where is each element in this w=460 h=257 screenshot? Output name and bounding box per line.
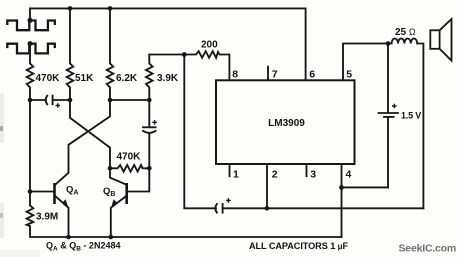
svg-text:ALL CAPACITORS 1 μF: ALL CAPACITORS 1 μF	[249, 241, 348, 251]
svg-text:3.9K: 3.9K	[157, 73, 179, 84]
svg-text:51K: 51K	[75, 73, 94, 84]
svg-text:470K: 470K	[36, 73, 61, 84]
svg-text:2: 2	[272, 169, 278, 181]
svg-text:QA: QA	[66, 185, 78, 197]
svg-text:4: 4	[346, 169, 352, 181]
svg-text:200: 200	[201, 40, 218, 51]
svg-text:6.2K: 6.2K	[116, 73, 138, 84]
svg-text:SeekIC.com: SeekIC.com	[399, 243, 457, 255]
svg-text:QA & QB - 2N2484: QA & QB - 2N2484	[46, 240, 120, 252]
svg-text:7: 7	[272, 68, 278, 80]
svg-text:5: 5	[346, 68, 352, 80]
svg-text:470K: 470K	[117, 152, 142, 163]
svg-text:6: 6	[309, 68, 315, 80]
svg-text:1: 1	[233, 169, 239, 181]
svg-text:3: 3	[310, 169, 316, 181]
svg-text:8: 8	[232, 68, 238, 80]
svg-text:LM3909: LM3909	[268, 118, 305, 129]
svg-text:3.9M: 3.9M	[36, 212, 58, 223]
svg-text:QB: QB	[103, 186, 115, 198]
svg-text:1.5 V: 1.5 V	[401, 111, 421, 121]
svg-text:25 Ω: 25 Ω	[395, 27, 416, 38]
